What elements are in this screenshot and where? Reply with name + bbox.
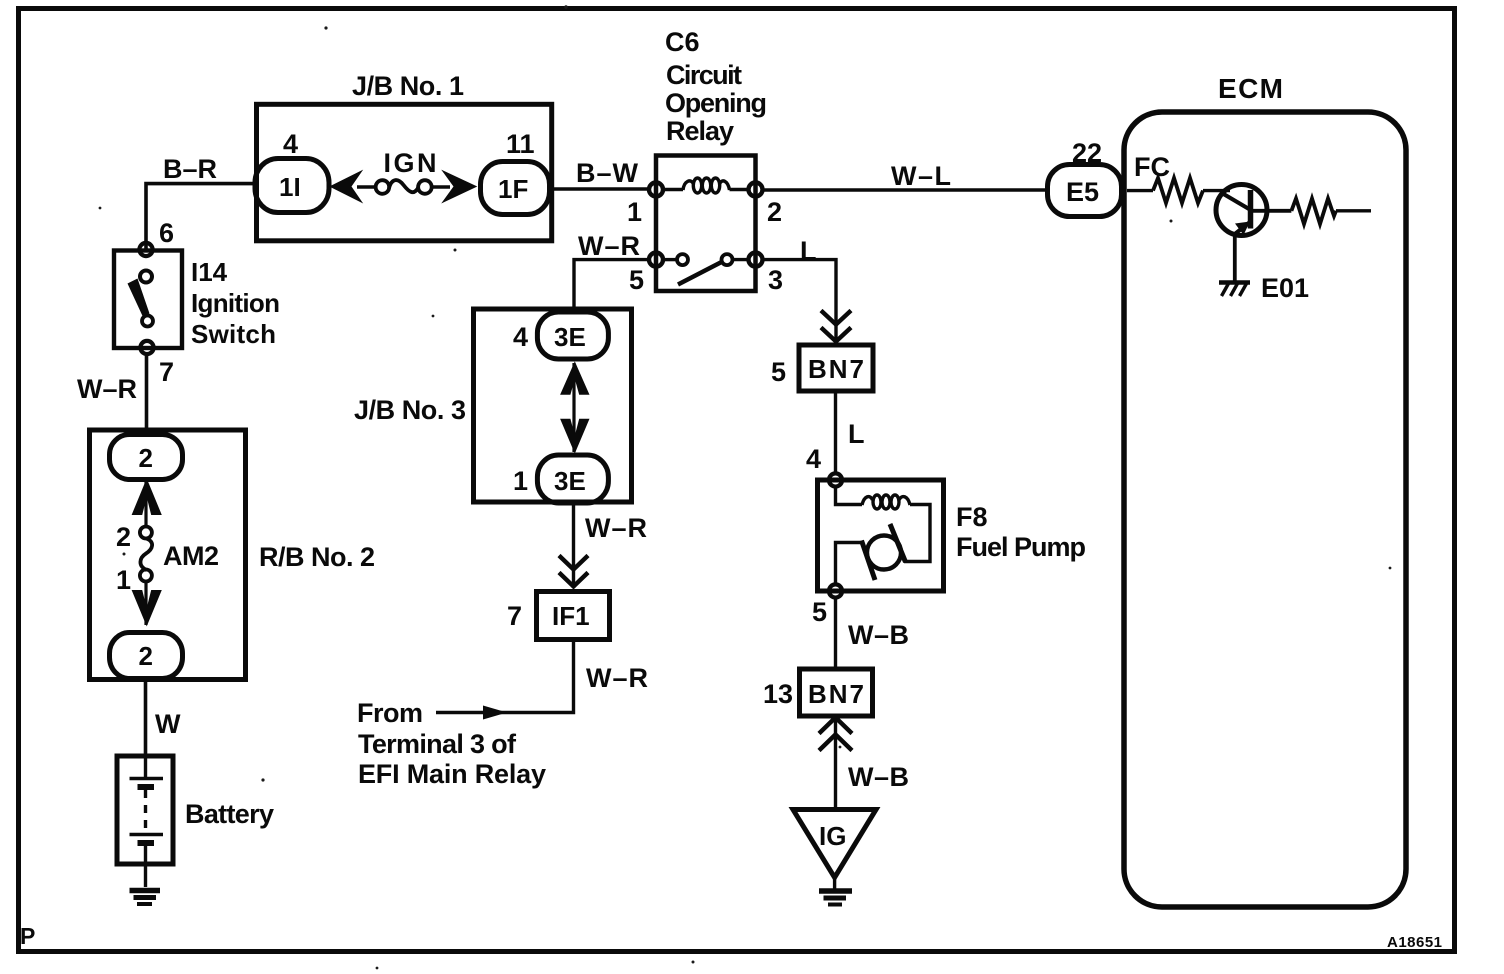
connector 2 top [110,435,183,480]
svg-text:6: 6 [159,218,174,248]
wire FC to resistor [1127,189,1153,192]
IG ground [819,877,852,905]
svg-text:Terminal 3 of: Terminal 3 of [358,729,517,759]
svg-text:3E: 3E [554,466,586,496]
svg-text:7: 7 [159,357,174,387]
I14 bottom terminal [140,341,153,354]
I14 labels [191,257,280,349]
svg-text:W–B: W–B [848,762,909,792]
svg-text:BN7: BN7 [808,354,864,384]
fuse AM2 [140,527,152,582]
svg-text:From: From [357,698,423,728]
svg-text:W: W [155,709,181,739]
pump top terminal [829,473,842,486]
svg-text:Opening: Opening [665,88,767,118]
fuel pump motor [867,536,901,570]
wire W-B from IG [834,720,837,810]
wire L from BN7 to fuel pump [834,391,837,473]
transistor collector wire [1251,209,1292,213]
svg-text:P: P [20,923,35,949]
svg-text:B–R: B–R [163,154,217,184]
svg-text:11: 11 [506,129,535,159]
svg-text:2: 2 [139,641,153,671]
svg-text:W–R: W–R [586,663,648,693]
arrow into 1I (left chevron) [329,170,363,204]
arrow up inside J/B3 [560,361,589,394]
motor brushes [862,541,876,581]
connector 3E bottom [537,455,608,503]
svg-text:4: 4 [513,322,528,352]
wire B-R from ignition switch to 1I [146,184,256,249]
svg-text:3E: 3E [554,322,586,352]
svg-text:5: 5 [771,357,786,387]
relay pin 2 terminal [749,183,763,197]
svg-text:C6: C6 [665,27,700,57]
battery cells [130,756,164,887]
connector E5 [1048,165,1122,217]
svg-text:FC: FC [1134,152,1170,182]
svg-text:W–R: W–R [585,513,647,543]
svg-text:F8: F8 [956,502,988,532]
wire W-L from relay pin 2 to E5 [763,188,1049,191]
transistor base bar [1248,190,1254,229]
relay pin 3 terminal [749,253,763,267]
wire W-R from relay pin 5 down to J/B No.3 [574,260,649,313]
svg-text:IGN: IGN [384,148,437,178]
svg-text:EFI Main Relay: EFI Main Relay [358,759,546,789]
double chevron into BN7#5 [821,311,851,342]
wire W to battery [144,678,148,756]
relay C6 title [665,27,767,146]
svg-text:B–W: B–W [576,158,639,188]
junction block J/B No.1 box [257,104,552,241]
resistor R1 [1153,178,1203,203]
svg-text:E01: E01 [1261,273,1309,303]
svg-text:2: 2 [767,197,782,227]
svg-text:J/B No. 1: J/B No. 1 [352,71,464,101]
wire W-B pump to BN7#13 [834,598,837,667]
transistor circle [1216,185,1267,236]
ECM box [1124,112,1406,907]
label F8 / Fuel Pump [956,502,1086,562]
double chevron up into BN7#13 [819,718,852,751]
wire after R2 [1336,209,1371,212]
pump bottom terminal [829,584,842,597]
svg-text:Ignition: Ignition [191,288,280,318]
note From Terminal 3 of EFI Main Relay [357,698,546,789]
wire to fuse AM2 [144,481,147,527]
svg-text:Fuel Pump: Fuel Pump [956,532,1086,562]
wire between arrows [572,363,575,452]
connector BN7 pin5 box [799,345,873,391]
svg-text:1: 1 [627,197,642,227]
connector 1I [255,159,329,213]
wire resistor to transistor [1203,189,1230,192]
relay C6 box [656,156,756,292]
svg-text:Relay: Relay [666,116,734,146]
wire W-R below J/B3 [572,503,575,588]
svg-text:I14: I14 [191,257,228,287]
svg-text:5: 5 [812,597,827,627]
wire fuse right [431,185,450,188]
svg-text:4: 4 [283,129,298,159]
wire L from relay pin 3 [763,260,837,345]
svg-text:ECM: ECM [1218,73,1283,104]
svg-text:L: L [848,419,865,449]
svg-text:E5: E5 [1066,177,1099,207]
wire fuse to arrow [144,582,147,626]
relay pin 1 terminal [649,183,663,197]
svg-text:1I: 1I [279,172,301,202]
connector 1F [481,162,550,215]
svg-text:4: 4 [806,444,821,474]
I14 top terminal [139,243,152,256]
relay pin 5 terminal [649,253,663,267]
ignition switch I14 box [114,251,182,349]
fuel pump F8 box [818,480,944,591]
arrow up to connector 2 [132,478,162,515]
svg-text:Battery: Battery [185,799,274,829]
wire B-W from 1F to relay pin 1 [548,187,651,190]
wire W-R switch to R/B No.2 [145,354,149,430]
svg-text:J/B No. 3: J/B No. 3 [354,395,466,425]
relay switch blade [678,262,723,285]
relay switch contact wires [663,258,677,261]
connector IF1 box [537,592,610,640]
battery ground [130,891,161,905]
svg-text:W–R: W–R [77,374,137,404]
relay switch contacts [677,254,688,265]
fuel pump inner wiring [836,486,931,585]
svg-text:L: L [800,236,817,266]
svg-text:1: 1 [513,466,528,496]
I14 blade [128,279,150,318]
I14 lower contact [142,316,153,327]
IG power triangle [793,810,876,878]
svg-text:W–B: W–B [848,620,909,650]
svg-text:1: 1 [116,565,131,595]
emitter wire down [1233,233,1237,282]
wire W-R from IF1 down-left [436,640,574,713]
relay block R/B No.2 box [90,430,246,680]
connector 3E top [537,312,608,359]
svg-text:W–R: W–R [578,231,640,261]
svg-text:W–L: W–L [891,161,951,191]
transistor base lead [1221,193,1249,210]
svg-text:IG: IG [819,821,846,851]
connector 2 bottom [110,633,183,679]
double chevron into IF1 [559,556,588,587]
arrow down to connector 2 [132,590,162,626]
transistor emitter [1236,222,1251,234]
arrow into 1F (right chevron) [441,170,477,204]
svg-text:Switch: Switch [191,319,276,349]
svg-text:A18651: A18651 [1387,934,1442,951]
arrowhead on from-wire [483,706,507,720]
battery box [117,756,173,864]
junction block J/B No.3 box [474,309,632,502]
svg-text:2: 2 [139,443,153,473]
svg-text:7: 7 [507,601,522,631]
svg-text:2: 2 [116,522,131,552]
svg-text:13: 13 [763,679,793,709]
svg-text:AM2: AM2 [163,541,219,571]
svg-text:Circuit: Circuit [666,60,742,90]
fuse IGN [376,180,432,194]
emitter arrowhead [1235,222,1250,236]
resistor R2 [1291,199,1336,225]
connector BN7 pin13 box [800,669,873,716]
svg-text:1F: 1F [498,174,528,204]
svg-text:5: 5 [629,265,644,295]
arrow down inside J/B3 [560,419,589,454]
svg-text:BN7: BN7 [808,679,864,709]
svg-text:IF1: IF1 [552,601,590,631]
svg-text:3: 3 [768,265,783,295]
svg-text:R/B No. 2: R/B No. 2 [259,542,375,572]
I14 inner contact [140,271,152,283]
ground E01 [1219,283,1250,297]
relay coil [663,178,749,193]
wire fuse left [357,185,376,188]
